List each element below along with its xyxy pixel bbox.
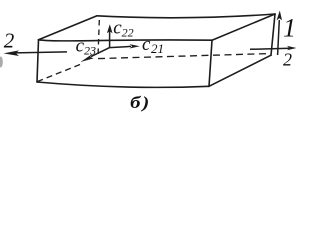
right force arrowhead [287, 46, 297, 50]
edge smudge [0, 57, 3, 68]
svg-text:б): б) [130, 93, 149, 112]
svg-text:1: 1 [283, 13, 296, 42]
up force arrowhead [277, 11, 282, 21]
right force arrow shaft [250, 48, 290, 49]
svg-text:2: 2 [4, 29, 15, 53]
box back-top edge E-F [97, 14, 275, 18]
box front-top edge A-B [39, 40, 213, 41]
left force arrowhead [4, 50, 20, 56]
box bottom-right diagonal edge C-G [209, 55, 271, 86]
box front-left vertical edge A-D [37, 40, 39, 82]
up force arrow shaft [278, 20, 280, 55]
left force arrow shaft [15, 52, 67, 53]
box front-right vertical edge B-C [209, 40, 212, 86]
hidden back-left vertical edge E-H (dashed) [98, 20, 99, 57]
axis c21 shaft [110, 46, 131, 47]
axis c23 arrowhead [81, 54, 94, 62]
box back-right vertical edge F-G [271, 14, 275, 55]
box front-bottom edge D-C [37, 82, 209, 87]
axis c22 shaft [109, 30, 111, 48]
box top-left diagonal edge A-E [39, 16, 98, 40]
svg-text:2: 2 [283, 50, 292, 70]
axis c21 arrowhead [130, 44, 140, 48]
hidden bottom-left diagonal edge H-D (dashed) [38, 65, 81, 82]
axis c23 shaft [91, 48, 110, 57]
axis c22 arrowhead [107, 24, 113, 33]
hidden back-bottom edge H-G (dashed) [98, 54, 268, 59]
box top-right diagonal edge B-F [212, 14, 275, 40]
